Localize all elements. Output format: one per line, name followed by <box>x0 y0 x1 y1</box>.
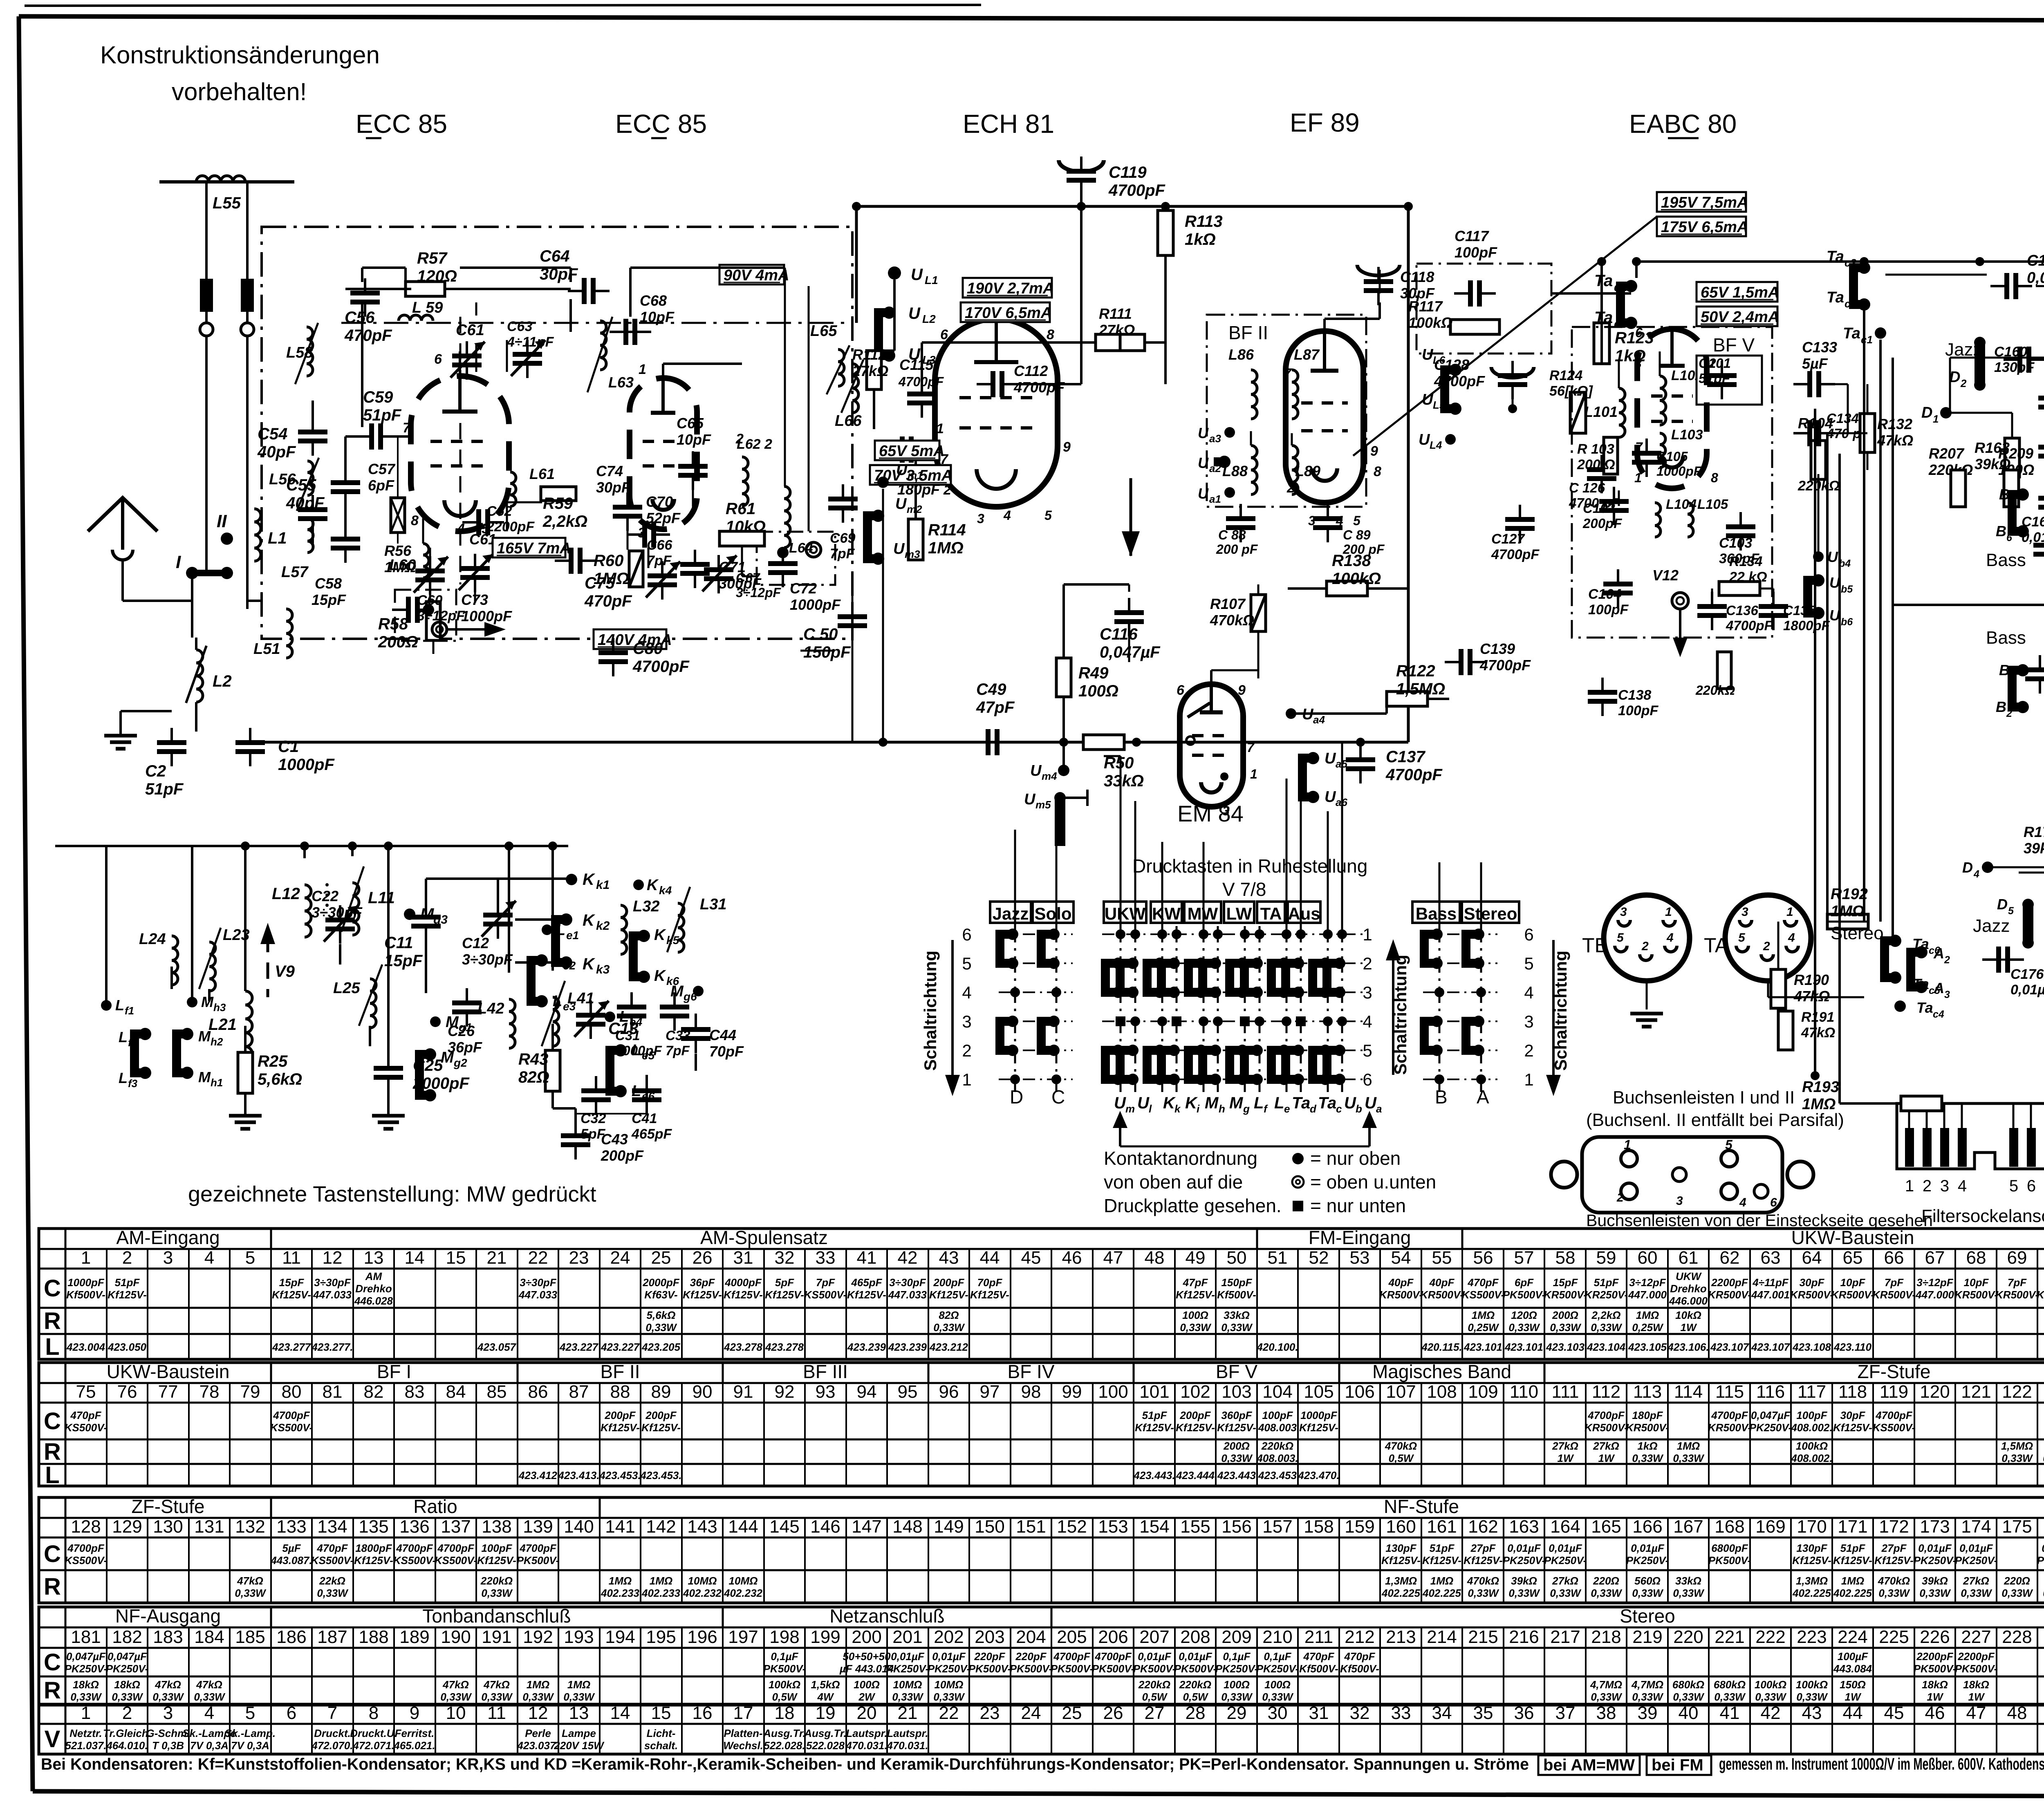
svg-text:K: K <box>583 871 596 888</box>
svg-text:27kΩ: 27kΩ <box>1098 322 1135 338</box>
svg-text:L60: L60 <box>389 557 416 574</box>
svg-text:7: 7 <box>1635 440 1643 454</box>
svg-text:51pF: 51pF <box>1699 371 1730 386</box>
svg-text:1kΩ: 1kΩ <box>1637 1440 1657 1452</box>
svg-text:C74: C74 <box>596 463 623 479</box>
svg-text:C: C <box>44 1275 61 1302</box>
terminal D4 <box>1982 862 1993 873</box>
capacitor C80 4700pF <box>598 650 628 655</box>
svg-text:33kΩ: 33kΩ <box>1675 1575 1701 1587</box>
svg-text:10pF: 10pF <box>677 431 711 448</box>
svg-text:145: 145 <box>769 1517 799 1537</box>
svg-text:18kΩ: 18kΩ <box>1963 1678 1989 1691</box>
svg-text:C112: C112 <box>1014 363 1048 379</box>
wire ant to L1 <box>123 600 192 602</box>
svg-text:Magisches Band: Magisches Band <box>1372 1361 1511 1382</box>
svg-text:KR500V-: KR500V- <box>1626 1421 1669 1434</box>
svg-text:f1: f1 <box>125 1005 134 1017</box>
svg-text:220pF: 220pF <box>1015 1650 1047 1663</box>
svg-text:C138: C138 <box>1618 687 1651 703</box>
svg-text:194: 194 <box>605 1627 635 1647</box>
svg-text:35: 35 <box>1473 1703 1493 1723</box>
svg-text:42: 42 <box>898 1248 918 1268</box>
svg-text:PK250V-: PK250V- <box>1215 1663 1258 1675</box>
svg-text:47: 47 <box>1103 1248 1123 1268</box>
svg-text:40pF: 40pF <box>286 494 325 512</box>
capacitor C68 10pF <box>623 319 628 345</box>
svg-text:U: U <box>1344 1094 1356 1112</box>
svg-text:3: 3 <box>1676 1194 1683 1208</box>
svg-text:447.000: 447.000 <box>1915 1289 1954 1301</box>
svg-text:192: 192 <box>523 1627 553 1647</box>
svg-text:Bass: Bass <box>1986 628 2026 648</box>
svg-text:2: 2 <box>1944 954 1950 966</box>
voltage box 190V 2.7mA <box>963 278 1052 298</box>
svg-text:100kΩ: 100kΩ <box>1332 570 1381 588</box>
Filtersockel comb <box>1897 1103 2044 1128</box>
svg-text:46: 46 <box>1062 1248 1082 1268</box>
svg-text:149: 149 <box>934 1517 964 1537</box>
svg-text:Konstruktionsänderungen: Konstruktionsänderungen <box>100 41 380 69</box>
svg-text:6: 6 <box>1770 1196 1777 1209</box>
svg-text:184: 184 <box>194 1627 224 1647</box>
svg-text:171: 171 <box>1838 1517 1867 1537</box>
svg-text:C12: C12 <box>462 935 489 951</box>
capacitor C89 200pF <box>1313 516 1342 521</box>
wire Kk <box>425 879 427 904</box>
svg-text:33: 33 <box>1391 1703 1411 1723</box>
svg-text:R209: R209 <box>1998 445 2033 462</box>
svg-text:120Ω: 120Ω <box>1511 1309 1537 1321</box>
svg-text:206: 206 <box>1098 1627 1128 1647</box>
svg-text:21: 21 <box>487 1248 507 1268</box>
svg-text:EABC 80: EABC 80 <box>1629 109 1737 139</box>
wires UKW internal <box>361 268 363 282</box>
svg-text:163: 163 <box>1509 1517 1539 1537</box>
svg-text:82Ω: 82Ω <box>939 1309 959 1321</box>
svg-text:C69: C69 <box>830 530 855 546</box>
svg-text:0,33W: 0,33W <box>1673 1452 1705 1464</box>
svg-text:C44: C44 <box>709 1027 736 1043</box>
svg-text:465pF: 465pF <box>851 1276 882 1289</box>
svg-text:31: 31 <box>733 1248 753 1268</box>
svg-text:Buchsenleisten I und II: Buchsenleisten I und II <box>1613 1088 1795 1108</box>
svg-text:58: 58 <box>1555 1248 1576 1268</box>
svg-text:143: 143 <box>687 1517 717 1537</box>
svg-text:0,33W: 0,33W <box>1961 1587 1992 1599</box>
capacitor C133 5uF <box>1807 371 1812 397</box>
capacitor C65 10pF <box>678 464 708 469</box>
svg-text:66: 66 <box>1884 1248 1904 1268</box>
svg-text:132: 132 <box>235 1517 265 1537</box>
svg-text:423.107: 423.107 <box>1751 1341 1791 1353</box>
svg-text:C134: C134 <box>1827 411 1859 426</box>
svg-text:a3: a3 <box>1209 432 1221 445</box>
svg-text:27kΩ: 27kΩ <box>852 363 888 379</box>
svg-text:b: b <box>1356 1103 1362 1115</box>
capacitor C61 second trim <box>460 566 490 571</box>
table V parts list <box>39 1705 2044 1754</box>
svg-text:U: U <box>1419 431 1430 448</box>
svg-text:m1: m1 <box>908 469 923 481</box>
svg-text:6: 6 <box>2027 1177 2036 1195</box>
svg-text:KS500V-: KS500V- <box>435 1554 477 1567</box>
svg-text:Wechsl.: Wechsl. <box>723 1739 763 1752</box>
svg-text:C49: C49 <box>976 680 1006 698</box>
svg-text:4÷11pF: 4÷11pF <box>1752 1276 1789 1289</box>
svg-text:52: 52 <box>1309 1248 1329 1268</box>
svg-text:1,5kΩ: 1,5kΩ <box>811 1678 840 1691</box>
svg-text:402.225: 402.225 <box>1381 1587 1421 1599</box>
svg-text:Ta: Ta <box>1916 999 1933 1016</box>
svg-text:443.084: 443.084 <box>1833 1663 1872 1675</box>
svg-text:von oben auf die: von oben auf die <box>1104 1171 1243 1193</box>
svg-text:Platten-: Platten- <box>724 1727 762 1739</box>
svg-text:22: 22 <box>528 1248 548 1268</box>
svg-text:(Buchsenl. II entfällt bei Par: (Buchsenl. II entfällt bei Parsifal) <box>1586 1110 1844 1130</box>
svg-text:82: 82 <box>364 1382 384 1402</box>
svg-text:92: 92 <box>775 1382 795 1402</box>
svg-text:R25: R25 <box>258 1052 288 1070</box>
svg-text:h1: h1 <box>211 1076 223 1089</box>
capacitor C26 36pF <box>452 1000 482 1005</box>
svg-text:200Ω: 200Ω <box>1552 1309 1578 1321</box>
svg-text:U: U <box>1422 391 1434 408</box>
svg-text:KW: KW <box>1152 904 1181 923</box>
terminal Ub4 <box>1813 551 1824 562</box>
coil L103 <box>1660 433 1665 468</box>
svg-text:142: 142 <box>646 1517 676 1537</box>
svg-text:86: 86 <box>528 1382 548 1402</box>
tube EM84 <box>1180 684 1243 807</box>
svg-text:100pF: 100pF <box>1618 703 1659 718</box>
right top bus <box>1850 260 2044 263</box>
svg-text:2: 2 <box>1641 940 1649 953</box>
svg-text:PK250V-: PK250V- <box>1503 1554 1546 1567</box>
svg-text:423.470.: 423.470. <box>1298 1469 1339 1482</box>
svg-text:KR250V-: KR250V- <box>1585 1289 1628 1301</box>
svg-text:27pF: 27pF <box>1881 1542 1907 1554</box>
switch Ub5 Ub6 <box>1808 580 1818 613</box>
svg-text:M: M <box>198 1028 211 1045</box>
capacitor C2 51pF <box>157 740 186 745</box>
capacitor C161 51pF <box>2038 396 2044 401</box>
svg-text:Schaltrichtung: Schaltrichtung <box>1391 955 1410 1075</box>
svg-text:6: 6 <box>1177 683 1185 698</box>
svg-text:139: 139 <box>523 1517 553 1537</box>
svg-text:L1: L1 <box>925 274 938 286</box>
svg-text:1,3MΩ: 1,3MΩ <box>1385 1575 1417 1587</box>
svg-text:UKW: UKW <box>1676 1270 1702 1282</box>
svg-text:55: 55 <box>1432 1248 1452 1268</box>
svg-text:30pF: 30pF <box>1800 1276 1825 1289</box>
svg-text:1MΩ: 1MΩ <box>609 1575 632 1587</box>
svg-text:7V 0,3A: 7V 0,3A <box>231 1739 269 1752</box>
svg-text:PK500V-: PK500V- <box>763 1663 806 1675</box>
svg-text:95: 95 <box>898 1382 918 1402</box>
svg-text:Kf125V-: Kf125V- <box>601 1421 640 1434</box>
svg-text:Lampe: Lampe <box>562 1727 596 1739</box>
svg-text:91: 91 <box>733 1382 753 1402</box>
svg-text:100kΩ: 100kΩ <box>1796 1678 1828 1691</box>
svg-text:0,33W: 0,33W <box>1591 1321 1623 1334</box>
svg-text:U: U <box>1198 485 1209 502</box>
svg-text:22 kΩ: 22 kΩ <box>1729 569 1767 585</box>
svg-text:L: L <box>119 1029 128 1045</box>
svg-text:190V 2,7mA: 190V 2,7mA <box>967 280 1054 297</box>
svg-text:0,33W: 0,33W <box>1508 1587 1540 1599</box>
svg-text:L63: L63 <box>608 374 634 391</box>
svg-text:AM-Eingang: AM-Eingang <box>116 1227 220 1248</box>
svg-text:47kΩ: 47kΩ <box>1877 432 1913 449</box>
terminal UL1 <box>888 266 901 280</box>
svg-text:L101: L101 <box>1584 403 1618 420</box>
svg-text:1MΩ: 1MΩ <box>594 570 629 588</box>
capacitor C50 150pF <box>838 614 867 619</box>
svg-text:m4: m4 <box>1042 770 1057 782</box>
svg-text:5: 5 <box>245 1248 255 1268</box>
svg-text:0,01µF: 0,01µF <box>1138 1650 1172 1663</box>
svg-text:Netzanschluß: Netzanschluß <box>829 1605 944 1627</box>
svg-text:R138: R138 <box>1332 552 1371 570</box>
svg-text:U: U <box>1024 791 1036 808</box>
resistor R43 82 <box>545 1050 560 1091</box>
svg-text:112: 112 <box>1592 1382 1620 1402</box>
svg-text:48: 48 <box>1145 1248 1165 1268</box>
svg-text:C 89: C 89 <box>1343 528 1371 542</box>
svg-text:464.010.: 464.010. <box>106 1739 148 1752</box>
svg-text:1: 1 <box>1786 905 1793 919</box>
svg-text:27kΩ: 27kΩ <box>1593 1440 1619 1452</box>
capacitor C70 52pF <box>642 521 647 548</box>
capacitor C166 0.01uF <box>2004 273 2009 299</box>
svg-text:25: 25 <box>651 1248 671 1268</box>
svg-text:6: 6 <box>287 1703 296 1723</box>
svg-text:1: 1 <box>1665 905 1672 919</box>
svg-text:24: 24 <box>1021 1703 1041 1723</box>
svg-text:C65: C65 <box>677 415 704 432</box>
svg-text:156: 156 <box>1221 1517 1251 1537</box>
svg-text:L6: L6 <box>1433 354 1446 366</box>
svg-text:Kf125V-: Kf125V- <box>1464 1554 1503 1567</box>
svg-text:470.031.: 470.031. <box>886 1739 928 1752</box>
svg-text:5: 5 <box>1617 931 1624 944</box>
svg-text:L89: L89 <box>1295 463 1320 479</box>
svg-text:2000pF: 2000pF <box>412 1074 470 1092</box>
svg-text:420.115.: 420.115. <box>1421 1341 1462 1353</box>
svg-text:423.278: 423.278 <box>765 1341 804 1353</box>
resistor R104 220k <box>1811 441 1826 479</box>
svg-text:C25: C25 <box>413 1056 443 1074</box>
svg-text:87: 87 <box>569 1382 589 1402</box>
svg-text:1MΩ: 1MΩ <box>650 1575 672 1587</box>
svg-text:47kΩ: 47kΩ <box>483 1678 510 1691</box>
switch UL6 UL5 <box>1445 370 1455 409</box>
svg-text:TB: TB <box>1582 934 1608 957</box>
voltage box 90V 4mA <box>719 265 784 284</box>
svg-text:2: 2 <box>1363 954 1372 973</box>
ground antenna <box>104 734 137 738</box>
svg-text:10MΩ: 10MΩ <box>729 1575 758 1587</box>
svg-text:C: C <box>44 1541 61 1567</box>
svg-text:42: 42 <box>1761 1703 1781 1723</box>
svg-text:54: 54 <box>1391 1248 1411 1268</box>
svg-text:1: 1 <box>962 1070 971 1089</box>
svg-text:0,33W: 0,33W <box>1714 1691 1746 1703</box>
svg-text:226: 226 <box>1920 1627 1950 1647</box>
svg-text:gemessen m. Instrument 1000Ω/: gemessen m. Instrument 1000Ω/V im Meßber… <box>1719 1755 2044 1773</box>
svg-text:200Ω: 200Ω <box>1223 1440 1250 1452</box>
svg-text:4: 4 <box>962 983 971 1002</box>
svg-text:C31: C31 <box>615 1028 640 1043</box>
svg-text:0,33W: 0,33W <box>1673 1691 1705 1703</box>
svg-text:KR500V-: KR500V- <box>1708 1421 1751 1434</box>
svg-text:R111: R111 <box>1099 305 1132 322</box>
resistor R106 220k <box>1717 652 1731 689</box>
svg-text:215: 215 <box>1468 1627 1498 1647</box>
svg-text:4: 4 <box>1788 931 1795 944</box>
svg-text:100Ω: 100Ω <box>1182 1309 1208 1321</box>
svg-text:423.107: 423.107 <box>1710 1341 1750 1353</box>
svg-text:Kf63V-: Kf63V- <box>644 1289 677 1301</box>
svg-text:0,33W: 0,33W <box>933 1691 965 1703</box>
svg-text:220Ω: 220Ω <box>1593 1575 1619 1587</box>
svg-text:102: 102 <box>1180 1382 1210 1402</box>
svg-text:67: 67 <box>1925 1248 1945 1268</box>
svg-text:165V 7mA: 165V 7mA <box>497 540 571 557</box>
svg-text:4÷11pF: 4÷11pF <box>507 334 554 350</box>
svg-text:1800pF: 1800pF <box>355 1542 392 1554</box>
svg-text:U: U <box>1030 762 1042 779</box>
svg-text:0,33W: 0,33W <box>481 1587 513 1599</box>
svg-text:K: K <box>583 911 596 929</box>
svg-text:197: 197 <box>728 1627 758 1647</box>
svg-text:472.070.: 472.070. <box>311 1739 353 1752</box>
svg-text:0,33W: 0,33W <box>1796 1691 1828 1703</box>
svg-text:81: 81 <box>323 1382 343 1402</box>
svg-text:b6: b6 <box>1841 616 1853 628</box>
svg-text:Kf125V-: Kf125V- <box>1299 1421 1338 1434</box>
svg-text:Jazz: Jazz <box>1973 916 2010 936</box>
svg-text:2200pF: 2200pF <box>1711 1276 1748 1289</box>
svg-text:LW: LW <box>1226 904 1252 923</box>
svg-text:Kf125V-: Kf125V- <box>1422 1554 1461 1567</box>
svg-text:189: 189 <box>399 1627 429 1647</box>
svg-text:1: 1 <box>1933 413 1939 425</box>
switch Kk2 Kk3 <box>556 920 566 962</box>
resistor R207 220k <box>1945 460 1948 463</box>
svg-text:36pF: 36pF <box>690 1276 715 1289</box>
svg-text:220kΩ: 220kΩ <box>1695 683 1735 698</box>
svg-text:9: 9 <box>1238 683 1246 698</box>
svg-text:53: 53 <box>1350 1248 1370 1268</box>
wires EM84 area <box>1128 632 1130 662</box>
svg-text:10MΩ: 10MΩ <box>688 1575 717 1587</box>
svg-text:82Ω: 82Ω <box>518 1068 549 1086</box>
svg-text:199: 199 <box>810 1627 840 1647</box>
svg-text:223: 223 <box>1797 1627 1827 1647</box>
svg-text:ECC 85: ECC 85 <box>356 109 447 139</box>
svg-text:KS500V-: KS500V- <box>1462 1289 1505 1301</box>
svg-text:Ta: Ta <box>1843 325 1860 342</box>
svg-text:L: L <box>619 1008 629 1025</box>
svg-text:KS500V-: KS500V- <box>311 1554 354 1567</box>
svg-text:47pF: 47pF <box>1183 1276 1208 1289</box>
svg-text:0,01µF: 0,01µF <box>1179 1650 1213 1663</box>
svg-text:30pF: 30pF <box>1840 1409 1866 1421</box>
svg-text:18kΩ: 18kΩ <box>73 1678 99 1691</box>
svg-text:L12: L12 <box>272 885 300 903</box>
svg-text:Bass: Bass <box>1986 550 2026 570</box>
svg-text:214: 214 <box>1427 1627 1457 1647</box>
svg-text:KR500V-: KR500V- <box>1708 1289 1751 1301</box>
svg-text:80: 80 <box>282 1382 302 1402</box>
svg-text:U: U <box>895 495 907 512</box>
capacitor C63 trim <box>513 352 542 357</box>
svg-text:7: 7 <box>403 420 411 436</box>
svg-text:218: 218 <box>1591 1627 1621 1647</box>
switch B5 B6 Bass <box>2012 495 2023 531</box>
svg-text:L: L <box>1254 1094 1264 1112</box>
svg-text:KS500V-: KS500V- <box>65 1421 108 1434</box>
svg-text:45: 45 <box>1021 1248 1041 1268</box>
capacitor C61 trim <box>452 354 482 358</box>
svg-text:PK250V-: PK250V- <box>1626 1554 1669 1567</box>
svg-text:M: M <box>201 994 214 1010</box>
svg-text:7: 7 <box>1284 366 1292 381</box>
svg-text:8: 8 <box>1047 327 1054 342</box>
capacitor C160 130pF <box>2017 347 2022 373</box>
svg-text:4700pF: 4700pF <box>1479 657 1531 674</box>
svg-text:150pF: 150pF <box>1221 1276 1252 1289</box>
svg-text:4700pF: 4700pF <box>1726 618 1773 633</box>
svg-text:4700pF: 4700pF <box>1053 1650 1091 1663</box>
terminal Kk1 <box>566 874 577 885</box>
svg-text:0,33W: 0,33W <box>892 1691 924 1703</box>
svg-text:6pF: 6pF <box>368 477 394 494</box>
svg-text:µF 443.014: µF 443.014 <box>839 1663 894 1675</box>
svg-text:4,7MΩ: 4,7MΩ <box>1631 1678 1663 1691</box>
svg-text:Aus: Aus <box>1288 904 1320 923</box>
svg-text:3÷30pF: 3÷30pF <box>314 1276 351 1289</box>
svg-text:220kΩ: 220kΩ <box>1179 1678 1211 1691</box>
voltage box 65V 5mA <box>875 441 939 460</box>
svg-text:Kf125V-: Kf125V- <box>1874 1554 1914 1567</box>
svg-text:159: 159 <box>1345 1517 1374 1537</box>
svg-text:165: 165 <box>1591 1517 1621 1537</box>
svg-text:172: 172 <box>1879 1517 1909 1537</box>
svg-text:447.033: 447.033 <box>888 1289 927 1301</box>
svg-text:0,33W: 0,33W <box>1632 1452 1664 1464</box>
switch UL2 UL3 <box>879 313 889 356</box>
svg-text:49: 49 <box>1186 1248 1206 1268</box>
svg-text:164: 164 <box>1550 1517 1580 1537</box>
coil L61 <box>510 472 516 506</box>
svg-text:423.277: 423.277 <box>272 1341 312 1353</box>
svg-text:V: V <box>45 1726 61 1752</box>
svg-text:470pF: 470pF <box>316 1542 348 1554</box>
svg-text:11: 11 <box>282 1248 301 1268</box>
svg-text:47kΩ: 47kΩ <box>196 1678 222 1691</box>
svg-text:L65: L65 <box>810 322 837 340</box>
svg-text:T 0,3B: T 0,3B <box>152 1739 184 1752</box>
capacitor C75 470pF <box>569 548 574 574</box>
svg-text:51pF: 51pF <box>363 406 402 424</box>
svg-text:45: 45 <box>1884 1703 1904 1723</box>
svg-text:77: 77 <box>158 1382 178 1402</box>
svg-text:Kf125V-: Kf125V- <box>970 1289 1009 1301</box>
coil L64 <box>784 486 790 548</box>
